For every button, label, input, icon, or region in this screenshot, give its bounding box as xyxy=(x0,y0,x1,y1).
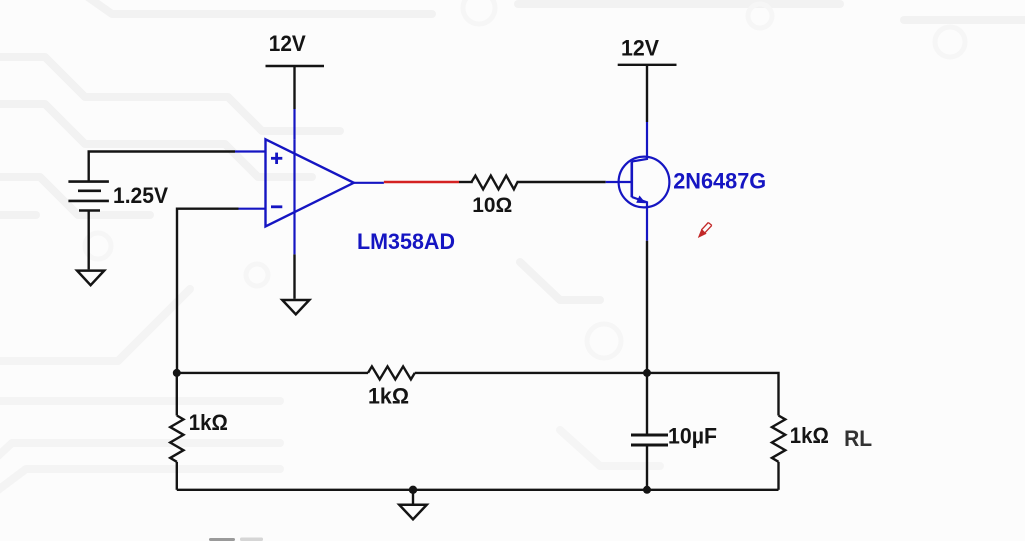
battery V1 wire top xyxy=(89,152,235,182)
wire node to resistor R2 xyxy=(176,373,178,416)
node A dot (inverting feedback node) xyxy=(173,369,181,377)
ground symbol op-amp xyxy=(282,300,309,314)
op-amp U1 triangle xyxy=(266,139,354,254)
battery V1 plates xyxy=(68,182,109,211)
wire capacitor top xyxy=(646,373,648,434)
op-amp U1 power pin stub xyxy=(293,109,295,139)
svg-text:1kΩ: 1kΩ xyxy=(368,384,409,409)
svg-text:2N6487G: 2N6487G xyxy=(673,169,766,194)
ground symbol bottom xyxy=(399,505,426,520)
wire emitter down xyxy=(646,241,648,373)
svg-text:10Ω: 10Ω xyxy=(472,194,512,217)
wire inverting input xyxy=(177,209,239,373)
caption fragment marks bottom xyxy=(209,538,235,541)
battery V1 wire bottom xyxy=(87,211,89,270)
wire to RL top xyxy=(647,373,779,416)
svg-text:1kΩ: 1kΩ xyxy=(189,410,228,435)
node bottom dot xyxy=(643,486,651,494)
wire resistor R2 to rail xyxy=(176,462,178,490)
node emitter dot xyxy=(643,369,651,377)
wire output to resistor xyxy=(459,181,473,183)
op-amp U1 input pin stubs xyxy=(235,152,384,209)
resistor 1k feedback xyxy=(368,366,415,379)
wire resistor to transistor base xyxy=(517,181,606,183)
transistor Q1 2N6487G xyxy=(606,122,670,241)
capacitor 10uF xyxy=(631,435,668,445)
resistor 1k left vertical xyxy=(170,416,183,462)
resistor 10ohm xyxy=(472,176,518,190)
svg-text:1.25V: 1.25V xyxy=(113,183,168,208)
wire VCC to collector xyxy=(646,65,648,122)
svg-text:10µF: 10µF xyxy=(668,424,717,449)
svg-text:LM358AD: LM358AD xyxy=(357,229,455,254)
svg-text:RL: RL xyxy=(844,426,872,451)
wire RL bottom xyxy=(777,462,779,490)
power supply VCC right 12V bar xyxy=(618,64,677,66)
resistor RL 1k xyxy=(772,416,785,462)
power supply VCC left 12V bar xyxy=(266,65,325,67)
wire capacitor bottom xyxy=(646,446,648,490)
svg-text:12V: 12V xyxy=(269,31,306,56)
svg-text:1kΩ: 1kΩ xyxy=(790,423,829,448)
wire feedback left xyxy=(177,372,368,374)
wire feedback right xyxy=(415,372,647,374)
red cursor pencil xyxy=(698,223,712,239)
wire ground stub xyxy=(412,490,414,504)
node ground tap dot xyxy=(409,486,417,494)
transistor Q1 emitter arrow xyxy=(636,196,646,204)
wire bottom rail xyxy=(177,489,779,491)
wire op-amp ground lead xyxy=(293,254,295,298)
wire op-amp output (red net) xyxy=(384,181,459,183)
svg-text:12V: 12V xyxy=(621,36,659,61)
ground symbol battery xyxy=(77,271,104,286)
wire VCC to op-amp power pin xyxy=(293,66,295,109)
